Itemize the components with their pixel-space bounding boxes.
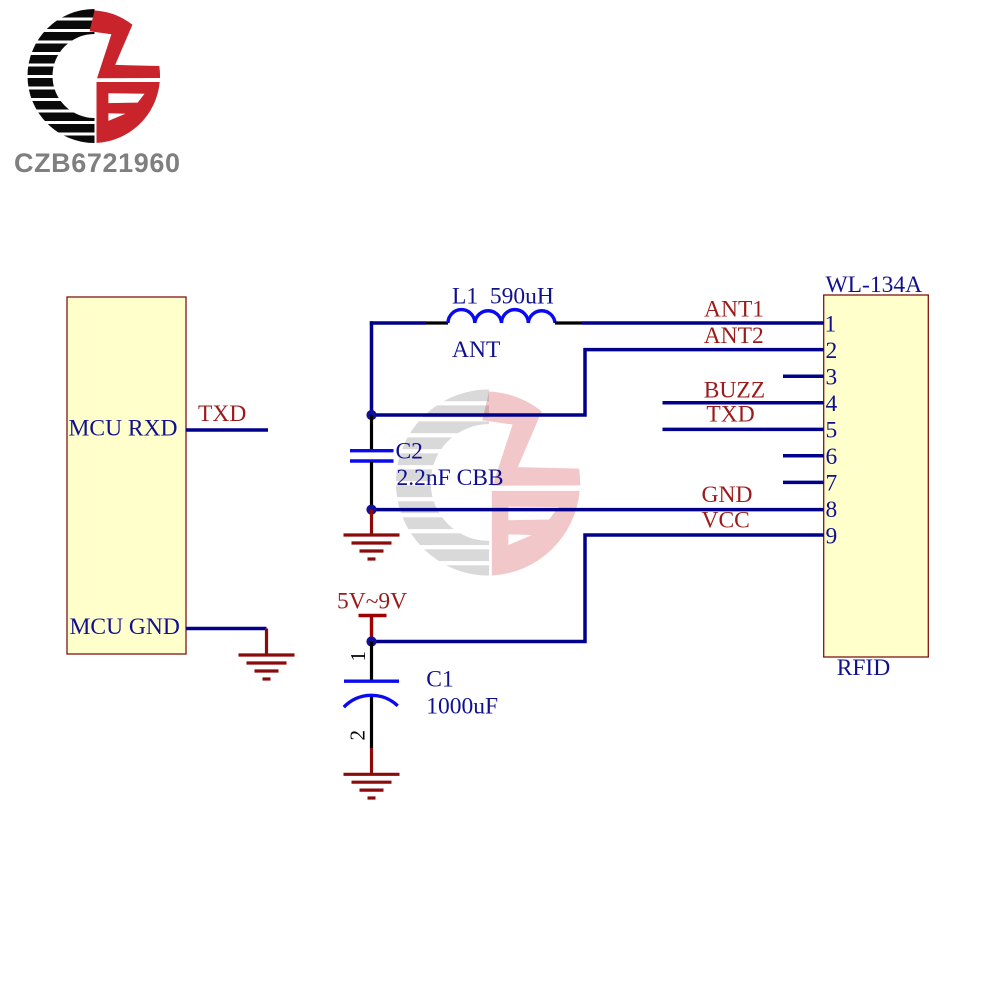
inductor L1	[426, 284, 582, 364]
wire top to inductor	[370, 321, 426, 325]
svg-text:1000uF: 1000uF	[426, 694, 498, 720]
wire GND net to pin 8	[372, 508, 824, 512]
svg-text:MCU GND: MCU GND	[70, 614, 180, 640]
svg-text:C2: C2	[396, 438, 423, 464]
svg-text:TXD: TXD	[706, 402, 754, 428]
wire TXD from MCU	[186, 428, 268, 432]
wire VCC net to pin 9	[372, 535, 824, 642]
svg-text:VCC: VCC	[702, 508, 750, 534]
svg-text:7: 7	[826, 471, 838, 497]
wire pin 6 stub	[783, 454, 824, 458]
ground at MCU	[239, 629, 295, 680]
RFID module WL-134A	[824, 272, 929, 681]
capacitor C2	[350, 415, 504, 510]
ground at C2	[344, 510, 400, 559]
wire MCU GND	[186, 627, 267, 631]
wire pin 3 stub	[783, 374, 824, 378]
svg-text:RFID: RFID	[837, 655, 891, 681]
svg-text:2: 2	[346, 730, 370, 741]
MCU block	[67, 297, 186, 654]
svg-text:TXD: TXD	[198, 401, 246, 427]
svg-text:3: 3	[826, 365, 838, 391]
svg-text:4: 4	[826, 391, 838, 417]
wire BUZZ to pin 4	[663, 401, 824, 405]
svg-text:BUZZ: BUZZ	[704, 378, 765, 404]
svg-text:MCU RXD: MCU RXD	[69, 415, 178, 441]
ground at C1	[344, 748, 400, 798]
svg-text:ANT: ANT	[452, 337, 500, 363]
svg-text:ANT1: ANT1	[704, 297, 764, 323]
wire TXD to pin 5	[663, 428, 824, 432]
node junction A	[366, 410, 376, 420]
svg-text:2.2nF CBB: 2.2nF CBB	[397, 465, 504, 491]
svg-text:WL-134A: WL-134A	[826, 272, 923, 298]
svg-text:1: 1	[346, 651, 370, 662]
svg-text:ANT2: ANT2	[704, 323, 764, 349]
svg-text:L1 590uH: L1 590uH	[452, 284, 554, 310]
svg-text:5: 5	[826, 418, 838, 444]
CZB company logo	[20, 9, 160, 144]
capacitor C1 polarized	[344, 642, 498, 749]
svg-text:GND: GND	[702, 482, 753, 508]
wire ANT node vertical	[370, 321, 374, 415]
svg-text:C1: C1	[426, 666, 453, 692]
svg-text:2: 2	[826, 338, 838, 364]
node junction C	[366, 636, 376, 646]
svg-text:9: 9	[826, 524, 838, 550]
watermark CZB logo	[386, 389, 581, 577]
svg-text:6: 6	[826, 444, 838, 470]
wire inductor to pin 1	[582, 321, 824, 325]
svg-text:1: 1	[825, 312, 837, 338]
wire ANT2 net	[372, 350, 824, 415]
svg-text:8: 8	[826, 497, 838, 523]
node junction B	[366, 505, 376, 515]
svg-text:5V~9V: 5V~9V	[337, 589, 407, 615]
power 5V~9V	[337, 589, 407, 642]
svg-text:CZB6721960: CZB6721960	[14, 148, 180, 178]
wire pin 7 stub	[783, 481, 824, 485]
